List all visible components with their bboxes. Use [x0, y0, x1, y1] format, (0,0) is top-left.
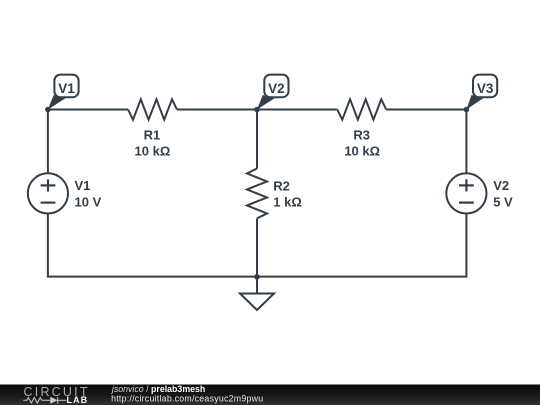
svg-text:http://circuitlab.com/ceasyuc2: http://circuitlab.com/ceasyuc2m9pwu [111, 393, 263, 403]
svg-text:1 kΩ: 1 kΩ [273, 195, 302, 210]
svg-text:R1: R1 [144, 128, 161, 143]
svg-text:LAB: LAB [67, 395, 88, 405]
svg-text:R3: R3 [353, 128, 370, 143]
svg-text:V2: V2 [268, 81, 285, 96]
svg-text:V1: V1 [58, 81, 75, 96]
svg-text:5 V: 5 V [493, 195, 513, 210]
svg-text:10 kΩ: 10 kΩ [135, 144, 171, 159]
svg-text:V3: V3 [477, 81, 494, 96]
svg-text:V1: V1 [75, 178, 91, 193]
svg-text:R2: R2 [273, 179, 290, 194]
svg-text:V2: V2 [493, 178, 509, 193]
svg-text:jsonvico / prelab3mesh: jsonvico / prelab3mesh [111, 384, 205, 394]
svg-text:10 kΩ: 10 kΩ [344, 144, 380, 159]
svg-text:10 V: 10 V [75, 195, 102, 210]
